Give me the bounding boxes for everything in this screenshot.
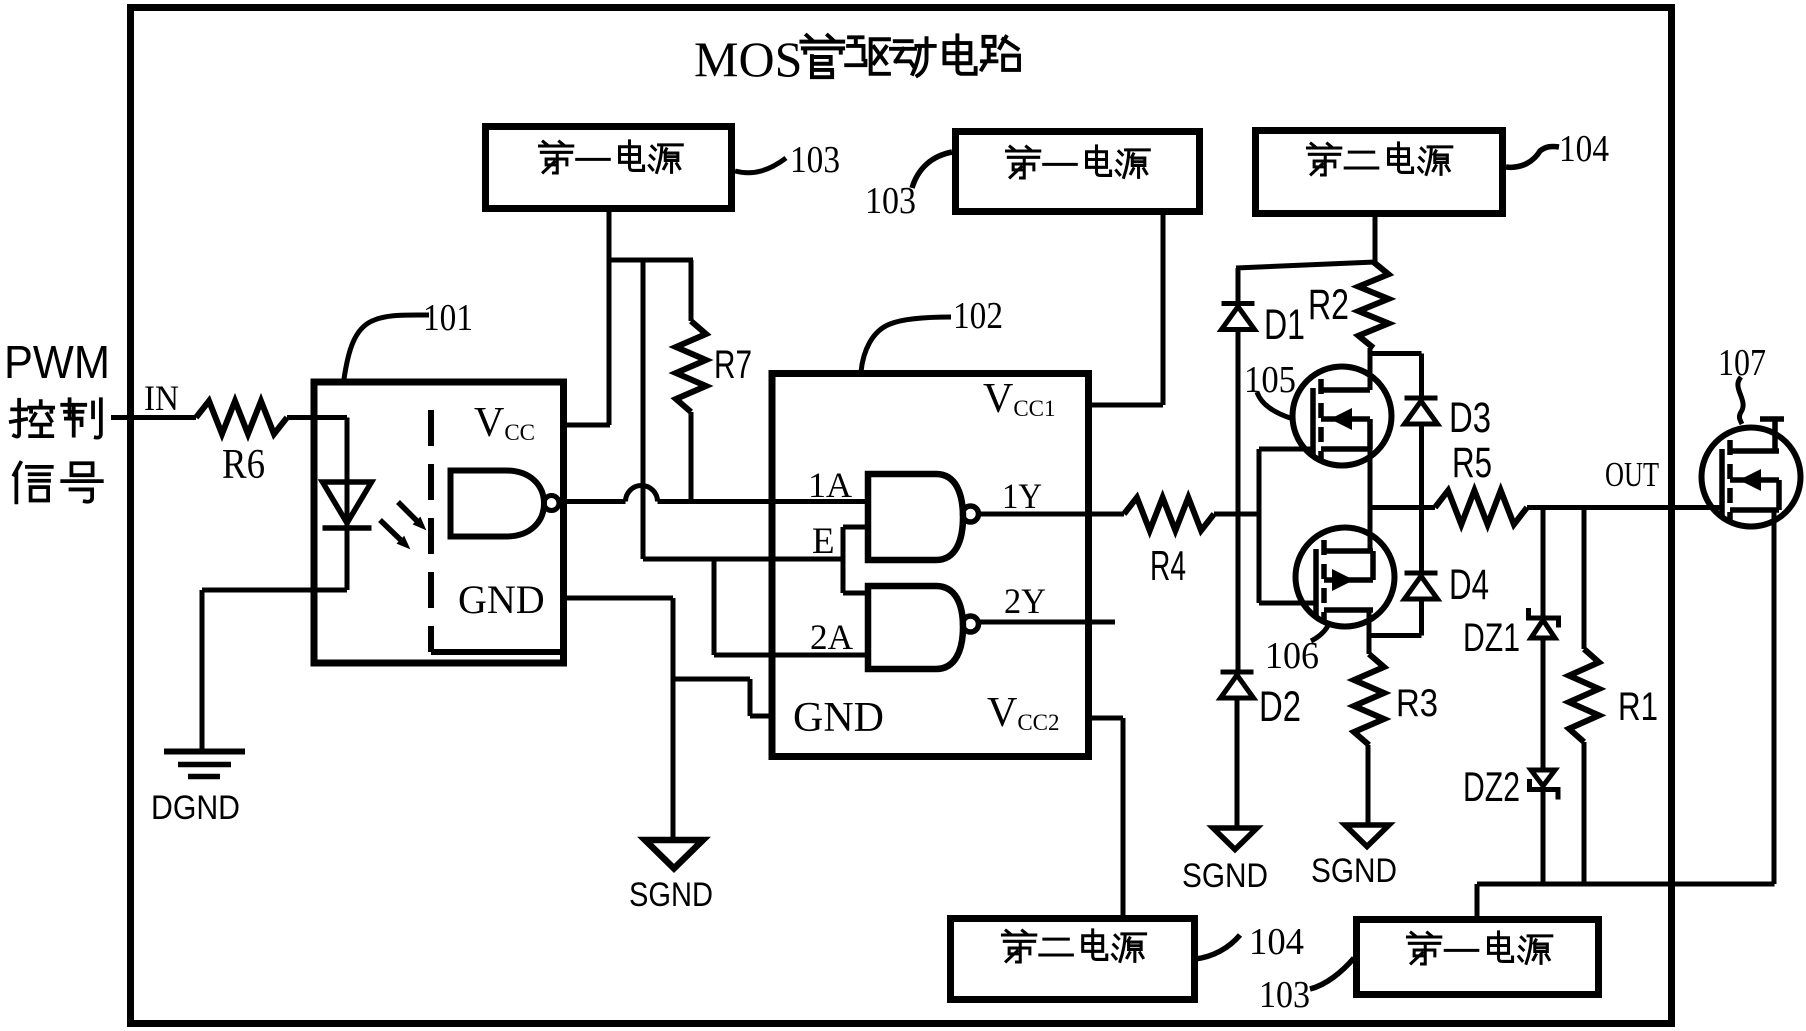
svg-text:IN: IN	[144, 378, 179, 418]
svg-text:D4: D4	[1449, 561, 1489, 609]
transistor 106 (low-side MOSFET)	[1296, 528, 1395, 627]
svg-text:102: 102	[953, 295, 1003, 337]
ground SGND (under R3)	[1345, 825, 1389, 847]
zener diode DZ2	[1531, 770, 1555, 786]
wire 1Y output	[978, 512, 1124, 517]
zener diode DZ1	[1541, 508, 1546, 619]
callout label 103 (bottom right)	[1310, 958, 1354, 989]
wire E to gate inputs	[841, 527, 846, 593]
transistor 107 (output MOSFET)	[1702, 428, 1801, 527]
svg-text:R5: R5	[1452, 439, 1492, 487]
diode D1	[1236, 268, 1241, 304]
power supply 104 box (top right) 第二电源	[1256, 131, 1503, 214]
svg-text:GND: GND	[458, 577, 545, 622]
callout label 103 (top middle)	[912, 152, 952, 188]
wire 2Y stub	[978, 620, 1115, 625]
resistor R1	[1582, 508, 1587, 650]
svg-text:PWM: PWM	[4, 336, 110, 388]
callout label 106	[1311, 622, 1330, 641]
svg-text:2A: 2A	[810, 617, 853, 657]
svg-text:VCC: VCC	[474, 400, 535, 446]
wire 106 source to R3 and D4	[1367, 610, 1372, 654]
resistor R3	[1354, 654, 1384, 745]
LED diode (optocoupler input)	[345, 418, 350, 591]
wire IN input line	[111, 415, 196, 420]
svg-text:105: 105	[1244, 359, 1296, 401]
callout label 107	[1738, 377, 1743, 424]
resistor R6	[196, 401, 287, 434]
svg-text:VCC2: VCC2	[987, 690, 1060, 736]
svg-text:106: 106	[1265, 635, 1319, 677]
wire power node to E input	[641, 260, 646, 559]
optocoupler 101 box	[314, 382, 564, 663]
svg-text:SGND: SGND	[1311, 852, 1397, 890]
wire output node to R5	[1370, 505, 1435, 510]
optocoupler output gate	[451, 471, 545, 537]
svg-text:1A: 1A	[808, 465, 852, 505]
NAND gate U102A	[868, 474, 963, 560]
svg-text:107: 107	[1718, 342, 1766, 384]
wire first power supply to optocoupler Vcc	[567, 423, 610, 428]
wire optocoupler output to 1A (hop over vertical)	[560, 499, 626, 504]
svg-text:DZ2: DZ2	[1463, 763, 1520, 810]
wire Vcc1 to first power supply	[1089, 403, 1163, 408]
wire chip GND to SGND	[673, 677, 750, 682]
svg-text:MOS: MOS	[694, 31, 802, 87]
svg-text:D1: D1	[1264, 301, 1305, 349]
svg-text:GND: GND	[793, 695, 884, 741]
wire LED cathode to DGND	[202, 588, 347, 593]
wire R2 to 105 drain and D3	[1368, 348, 1373, 390]
light arrows (optocoupler coupling)	[398, 502, 420, 524]
NAND gate U102B	[868, 586, 963, 669]
resistor R2	[1359, 262, 1389, 348]
ground SGND (left)	[645, 840, 703, 869]
wire 105 source / 106 drain to output node	[1368, 449, 1373, 508]
svg-text:104: 104	[1559, 128, 1609, 170]
svg-text:101: 101	[423, 297, 473, 339]
svg-text:DGND: DGND	[151, 789, 240, 827]
wire second power supply to R2/D1	[1373, 217, 1378, 262]
svg-text:R7: R7	[714, 343, 752, 387]
ground SGND (under D2)	[1213, 828, 1257, 850]
svg-text:SGND: SGND	[629, 876, 713, 914]
svg-text:R3: R3	[1396, 682, 1438, 725]
callout label 105	[1257, 392, 1293, 419]
wire Vcc2 to second power supply	[1089, 716, 1123, 721]
power supply 104 box (bottom) 第二电源	[951, 919, 1195, 1000]
svg-text:SGND: SGND	[1182, 857, 1268, 895]
diode D2	[1236, 514, 1241, 672]
power supply 103 box (bottom right) 第一电源	[1357, 920, 1599, 995]
svg-text:1Y: 1Y	[1002, 476, 1042, 516]
callout label 104 (bottom)	[1195, 935, 1240, 959]
diode D4	[1419, 508, 1424, 574]
wire OUT line to 107 gate	[1527, 505, 1724, 510]
callout label 101	[344, 315, 429, 379]
ground DGND	[164, 749, 245, 755]
svg-text:103: 103	[790, 139, 840, 181]
wire optocoupler GND to SGND	[567, 596, 673, 601]
svg-text:2Y: 2Y	[1004, 581, 1046, 621]
logic chip 102 box	[772, 374, 1089, 757]
svg-text:103: 103	[865, 180, 916, 222]
svg-text:103: 103	[1259, 974, 1310, 1016]
wire bottom rail (DZ2/R1/107 source to first power supply)	[1477, 882, 1775, 887]
resistor R5	[1435, 491, 1527, 525]
resistor R4	[1124, 498, 1214, 531]
resistor R7	[689, 260, 694, 321]
wire power node junction	[607, 258, 693, 263]
svg-text:R2: R2	[1308, 281, 1349, 329]
svg-text:E: E	[812, 521, 835, 562]
svg-text:R6: R6	[222, 442, 265, 488]
optocoupler internal boundary (dashed)	[428, 410, 434, 652]
svg-text:OUT: OUT	[1605, 455, 1659, 494]
svg-text:104: 104	[1249, 921, 1304, 963]
callout label 104 (top right)	[1506, 146, 1559, 167]
svg-text:D2: D2	[1259, 683, 1301, 731]
svg-text:DZ1: DZ1	[1463, 616, 1520, 660]
power supply 103 box (top middle) 第一电源	[956, 132, 1200, 212]
power supply 103 box (top left) 第一电源	[486, 127, 732, 209]
svg-text:D3: D3	[1449, 394, 1491, 442]
diode D3	[1405, 396, 1438, 401]
wire gate drive to 105/106	[1257, 449, 1262, 603]
svg-text:R1: R1	[1618, 685, 1658, 729]
wire E net to 2A input	[712, 559, 717, 655]
svg-text:R4: R4	[1150, 542, 1186, 589]
svg-text:VCC1: VCC1	[983, 376, 1056, 422]
callout label 102	[861, 317, 951, 372]
transistor 105 (high-side MOSFET)	[1293, 367, 1392, 466]
callout label 103 (top left)	[735, 158, 786, 173]
